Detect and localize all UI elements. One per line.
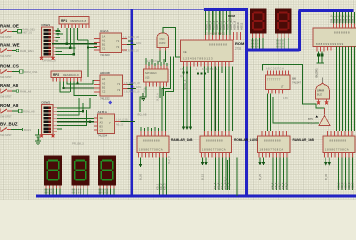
svg-text:Y1: Y1 <box>117 82 121 86</box>
svg-text:1.A_RAM5_L6: 1.A_RAM5_L6 <box>123 50 139 53</box>
svg-text:ROM: ROM <box>235 41 245 46</box>
svg-text:8 8 8 8 8: 8 8 8 8 8 <box>72 192 82 195</box>
svg-text:KB_6: KB_6 <box>274 182 278 189</box>
ground under RP1 pin1 <box>56 28 61 35</box>
svg-text:RAM_A8: RAM_A8 <box>20 89 32 93</box>
svg-text:NET_01: NET_01 <box>23 30 33 34</box>
bus wire: horizontal under top displays <box>246 49 300 52</box>
svg-text:B_25: B_25 <box>258 173 262 180</box>
labels above U4 pins <box>147 60 161 63</box>
svg-text:KC_5: KC_5 <box>337 182 341 189</box>
svg-text:RAMLAR_1kB: RAMLAR_1kB <box>171 138 193 142</box>
svg-text:8 8 8 8 8 8 8: 8 8 8 8 8 8 8 <box>334 31 350 35</box>
svg-text:RAMLAR_1kB: RAMLAR_1kB <box>293 138 315 142</box>
svg-text:5e_aa: 5e_aa <box>308 122 315 125</box>
wires DS4/DS5 pins to bus <box>253 38 289 49</box>
wire U1 output to bus <box>127 41 136 45</box>
wires U7 bottom to RAM3 <box>337 47 355 132</box>
switch SW5 ROM_A8 <box>0 103 19 119</box>
svg-text:8 8 8 8 8 8 8 8: 8 8 8 8 8 8 8 8 <box>264 139 281 143</box>
net label RAM_WE tap <box>16 49 34 53</box>
RAM chip U10 <box>323 131 355 157</box>
svg-text:1.B_RAM5_L6: 1.B_RAM5_L6 <box>124 91 140 94</box>
wires DS1 pins to bus <box>46 189 60 195</box>
net labels on U7 top wires <box>330 15 355 23</box>
svg-text:2732: 2732 <box>235 47 242 51</box>
svg-text:RP2: RP2 <box>53 73 59 77</box>
svg-text:OSC: OSC <box>160 38 165 41</box>
svg-text:KB_7: KB_7 <box>278 182 282 189</box>
svg-text:1 8 9 8 0 7 7 0 8 C A: 1 8 9 8 0 7 7 0 8 C A <box>139 148 163 152</box>
wire SW2 to label <box>12 50 16 52</box>
svg-text:C2: C2 <box>102 90 106 94</box>
svg-text:C1: C1 <box>102 47 106 51</box>
svg-text:B_15: B_15 <box>201 173 205 180</box>
svg-text:BT5: BT5 <box>308 117 313 121</box>
svg-text:74LS47: 74LS47 <box>292 81 302 85</box>
net label ROM_CS tap <box>20 70 38 74</box>
svg-text:1 8 9 8 0 7 7 0 8 C A: 1 8 9 8 0 7 7 0 8 C A <box>260 148 284 152</box>
svg-text:ADC08: ADC08 <box>100 71 110 75</box>
svg-text:4.8V: 4.8V <box>283 97 288 100</box>
arrows below RAM U9 left pins <box>258 162 265 166</box>
svg-text:KD_1: KD_1 <box>156 183 160 190</box>
lone wire + label left of U9 <box>225 160 228 190</box>
wire SW5 to label <box>12 110 18 112</box>
svg-text:1.1A_(139): 1.1A_(139) <box>116 119 128 122</box>
svg-text:Y: Y <box>109 121 111 125</box>
wires below RAM U11 <box>139 157 167 194</box>
svg-text:B_35: B_35 <box>324 173 328 180</box>
gate U2 74LS32 <box>94 71 128 101</box>
antenna/transducer LS1 <box>308 108 330 126</box>
net label ROM_A8 tap <box>19 109 35 113</box>
svg-text:2A: 2A <box>102 77 105 81</box>
labels below U4 <box>144 88 148 94</box>
svg-text:RAM_OE: RAM_OE <box>0 24 19 29</box>
svg-text:CE: CE <box>183 50 187 54</box>
svg-text:SW-SPST: SW-SPST <box>0 115 12 119</box>
resistor pack RP2 <box>51 71 82 82</box>
svg-text:A3:B:A: A3:B:A <box>98 110 107 114</box>
svg-text:A3: A3 <box>100 121 104 125</box>
wire SW4 to label <box>12 90 16 92</box>
svg-text:74LS00: 74LS00 <box>100 53 110 57</box>
svg-text:8 8 8 8 8: 8 8 8 8 8 <box>98 192 108 195</box>
svg-text:DSW2: DSW2 <box>42 101 51 105</box>
svg-text:8 8 8 8: 8 8 8 8 <box>276 46 284 49</box>
svg-text:Y2: Y2 <box>117 88 121 92</box>
svg-text:8 8 8 8 8 8 8 8: 8 8 8 8 8 8 8 8 <box>330 139 347 143</box>
svg-text:KA_6: KA_6 <box>217 182 221 189</box>
net labels below RAM U8 <box>201 173 232 189</box>
svg-text:RAM_WE1: RAM_WE1 <box>20 49 34 53</box>
DIP switch DSW1 <box>40 23 57 63</box>
svg-text:ROM_A8: ROM_A8 <box>0 103 19 108</box>
pin-number labels above ROM top stubs <box>205 34 226 36</box>
svg-text:DSW1: DSW1 <box>42 23 51 27</box>
svg-text:Y2: Y2 <box>116 45 120 49</box>
junction dots RP2 mesh <box>62 82 78 89</box>
decoder U6 74LS47 <box>266 71 291 94</box>
wires crystal legs down <box>160 51 166 63</box>
buzzer BZ1 <box>316 83 330 105</box>
arrows below RAM U10 left pins <box>324 162 331 166</box>
svg-text:RP1: RP1 <box>61 19 67 23</box>
power flags below U7 <box>317 52 325 64</box>
svg-text:0.B: 0.B <box>180 68 184 71</box>
svg-text:RESPACK-8: RESPACK-8 <box>71 19 87 23</box>
svg-text:SW-SPST: SW-SPST <box>0 35 12 39</box>
svg-text:AD11: AD11 <box>239 22 243 30</box>
net label RAM_A8 tap <box>16 89 31 93</box>
resistor pack RP1 <box>59 17 89 29</box>
wire buzzer top <box>322 78 324 83</box>
7seg display DS2 (green) <box>71 156 89 189</box>
svg-text:KB_5: KB_5 <box>271 182 275 189</box>
svg-text:B_RAM: B_RAM <box>133 86 141 89</box>
svg-text:8 0 1 2 8 4 0 1: 8 0 1 2 8 4 0 1 <box>202 68 218 71</box>
labels below DS4 pins <box>251 40 259 49</box>
7seg display DS4 (red) <box>250 9 266 39</box>
DIP switch DSW2 <box>40 101 57 138</box>
wires below RAM U10 <box>326 157 353 190</box>
svg-text:1A: 1A <box>102 35 105 39</box>
svg-text:U15: U15 <box>145 77 150 80</box>
svg-text:KD_3: KD_3 <box>163 183 167 190</box>
svg-text:1.A_RAM5_U6: 1.A_RAM5_U6 <box>123 36 140 39</box>
wires above RAM U11 <box>141 127 159 131</box>
svg-text:8 8 8 8 8: 8 8 8 8 8 <box>44 192 54 195</box>
svg-text:KC_7: KC_7 <box>344 182 348 189</box>
svg-text:DB_7: DB_7 <box>351 15 355 23</box>
labels DS2 pins <box>72 189 82 195</box>
svg-text:SW-SPST: SW-SPST <box>0 95 12 99</box>
svg-text:KB_0: KB_0 <box>225 176 228 183</box>
switch SW2 RAM_WE <box>0 43 20 59</box>
svg-text:A1: A1 <box>102 39 106 43</box>
svg-text:8 8 8 9 9 9 9 9 9 9 9 9: 8 8 8 9 9 9 9 9 9 9 9 9 <box>316 42 344 46</box>
svg-text:ROM: ROM <box>228 14 236 18</box>
wires below RAM U8 <box>203 157 230 190</box>
7seg display DS3 (green) <box>98 156 116 189</box>
wire U2 output to bus <box>128 85 137 89</box>
labels below ROM pins <box>180 68 218 78</box>
bus wire: long vertical at x=246.5 <box>245 9 248 198</box>
wire left of U6 down <box>273 97 319 123</box>
svg-text:BUZ1: BUZ1 <box>24 128 32 132</box>
label ROM <box>235 41 245 51</box>
arrows below RAM U8 left pins <box>201 162 208 166</box>
gate U1 74LS00 <box>94 29 127 57</box>
wire SW6 to BUZ label <box>11 129 22 131</box>
svg-text:RESPACK-8: RESPACK-8 <box>63 73 79 77</box>
svg-text:1 2 3 4 5 6 7 8 9 0 1 2 3: 1 2 3 4 5 6 7 8 9 0 1 2 3 <box>183 57 213 61</box>
crystal X1 <box>157 33 169 51</box>
svg-text:1 8 9 8 0 7 7 0 8 C A: 1 8 9 8 0 7 7 0 8 C A <box>202 148 226 152</box>
label U6 <box>292 77 302 85</box>
svg-text:DIPSWC_8: DIPSWC_8 <box>43 59 57 63</box>
bus wire: vertical right of top displays <box>298 11 301 52</box>
net labels right of U2 <box>124 82 141 94</box>
wires below U4 <box>140 87 164 113</box>
wire crystal top to ROM <box>163 28 181 58</box>
switch SW3 ROM_CS <box>0 64 19 80</box>
svg-text:1 8 9 8 0 7 7 0 8 C A: 1 8 9 8 0 7 7 0 8 C A <box>325 148 349 152</box>
svg-text:A_RAM: A_RAM <box>133 42 141 45</box>
ground near SW6 <box>35 129 42 139</box>
wires ROM bottom left with arrows <box>182 67 192 131</box>
wires U6 bottom to RAM2 <box>268 94 271 132</box>
svg-text:ROM_CS1: ROM_CS1 <box>24 70 38 74</box>
switch SW1 RAM_OE <box>0 24 19 40</box>
wire SW1 to label <box>12 31 17 33</box>
wire mesh DSW1/RP1 to U1/U2 <box>52 28 97 77</box>
svg-text:KA_7: KA_7 <box>220 182 224 189</box>
svg-text:BUZR1: BUZR1 <box>315 68 319 78</box>
svg-text:PR_B8_5: PR_B8_5 <box>72 142 84 146</box>
svg-text:8 8 8 8 8 8 8 8: 8 8 8 8 8 8 8 8 <box>143 139 160 143</box>
junction dots DSW2 mesh <box>82 110 91 123</box>
wire SW3 to label <box>12 71 19 73</box>
bus wire: thin blue segment top-left <box>0 9 204 11</box>
svg-text:8 8 8 8 8 8 8 8: 8 8 8 8 8 8 8 8 <box>209 43 227 47</box>
bus wire: thick blue to top right corner <box>298 9 353 12</box>
svg-text:SW-SPST: SW-SPST <box>0 75 12 79</box>
labels below U6 <box>283 97 288 100</box>
junction dots top-left mesh <box>66 43 89 56</box>
svg-text:Y1: Y1 <box>116 39 120 43</box>
labels below DS5 pins <box>276 40 284 49</box>
svg-text:1 2 0 4 8 0 2: 1 2 0 4 8 0 2 <box>147 60 161 63</box>
decoder U4 mid <box>144 65 169 87</box>
wire U3 output to bus <box>121 121 136 123</box>
svg-text:IRQ_AB: IRQ_AB <box>137 113 147 117</box>
svg-text:KA_5: KA_5 <box>213 182 217 189</box>
svg-text:KB_9: KB_9 <box>285 182 289 189</box>
svg-text:B1: B1 <box>102 43 106 47</box>
vertical label mid <box>157 93 172 164</box>
svg-text:KD_2: KD_2 <box>159 183 163 190</box>
svg-text:3A: 3A <box>100 116 103 120</box>
svg-text:S2T1D2L3: S2T1D2L3 <box>145 72 157 75</box>
svg-text:B_05: B_05 <box>139 173 143 180</box>
svg-text:ROM_A8: ROM_A8 <box>23 110 35 114</box>
svg-text:KB_8: KB_8 <box>281 182 285 189</box>
svg-text:RAM_A8: RAM_A8 <box>0 83 19 88</box>
wires DS3 pins to bus <box>100 189 114 195</box>
net label BUZ <box>23 128 32 132</box>
ground below U4 <box>141 93 147 101</box>
svg-text:8 8 8 8: 8 8 8 8 <box>251 46 259 49</box>
RAM chip U8 <box>200 131 232 157</box>
wires DS2 pins to bus <box>73 189 87 195</box>
wire from U6 area top <box>263 65 325 109</box>
svg-text:74LS32: 74LS32 <box>100 97 110 101</box>
svg-text:8 8 8 8 8 8 8 8: 8 8 8 8 8 8 8 8 <box>206 139 223 143</box>
svg-text:4MHZ: 4MHZ <box>159 42 166 45</box>
net labels right of U1 <box>123 36 141 53</box>
net labels below RAM U10 <box>324 173 355 189</box>
bus wire: bottom horizontal <box>36 195 356 198</box>
svg-text:KC_9: KC_9 <box>351 182 355 189</box>
svg-text:1 2 3 4 5 6 7 8 9 0 1: 1 2 3 4 5 6 7 8 9 0 1 <box>205 34 226 36</box>
wires U7 top pins to bus <box>334 12 355 24</box>
net labels right of U3 <box>116 119 128 127</box>
svg-text:BV_BUZ: BV_BUZ <box>0 122 18 127</box>
7seg display DS5 (red) <box>275 9 291 39</box>
long wires to RAM U11 top <box>162 57 174 132</box>
net labels on ROM top wires <box>204 20 243 30</box>
RAM chip U11 <box>137 131 169 157</box>
svg-text:7 7 7 7 7 7 7: 7 7 7 7 7 7 7 <box>267 79 281 82</box>
wires below RAM U9 <box>260 157 287 190</box>
svg-text:SW-SPST: SW-SPST <box>0 54 12 58</box>
svg-text:RAM_WE: RAM_WE <box>0 43 20 48</box>
svg-text:KC_6: KC_6 <box>340 182 344 189</box>
switch SW6 BV_BUZ <box>0 122 18 138</box>
svg-text:BUZ: BUZ <box>317 94 322 97</box>
svg-text:SPKR: SPKR <box>317 89 324 93</box>
junction dots below ROM <box>182 71 206 74</box>
svg-text:ROMLAR_LU03: ROMLAR_LU03 <box>234 138 258 142</box>
svg-text:ROM_CS: ROM_CS <box>0 64 19 69</box>
switch SW4 RAM_A8 <box>0 83 19 99</box>
svg-text:KC_8: KC_8 <box>347 182 351 189</box>
svg-text:1.B_RAM5_U6: 1.B_RAM5_U6 <box>124 82 141 85</box>
bus wire: thick blue top horizontal <box>204 8 248 11</box>
svg-text:2x1: 2x1 <box>228 19 233 22</box>
extra short stubs right of ROM top pins <box>234 32 241 40</box>
wires above U4 <box>146 58 167 66</box>
svg-text:B3: B3 <box>100 125 104 129</box>
svg-text:Q.B: Q.B <box>180 75 185 78</box>
wires ROM top pins to bus <box>206 11 231 35</box>
wire mesh RP2 to U2 <box>60 81 97 96</box>
marker diamond above U3 <box>108 101 112 105</box>
svg-text:BUZ_A: BUZ_A <box>157 93 160 101</box>
wires ROM bottom to RAM1 <box>205 67 233 132</box>
labels DS3 pins <box>98 189 108 195</box>
svg-text:C3: C3 <box>100 129 104 133</box>
svg-text:AB_13: AB_13 <box>116 124 124 127</box>
labels DS1 pins <box>44 189 54 195</box>
svg-text:SW-SPST: SW-SPST <box>0 133 12 137</box>
svg-text:B2: B2 <box>102 86 106 90</box>
svg-text:BUZ_B: BUZ_B <box>168 156 171 164</box>
ground under DSW2 <box>35 137 41 145</box>
bus wire: long vertical at x=131.8 <box>130 9 133 197</box>
svg-text:U12:A: U12:A <box>100 29 108 33</box>
net label RAM_OE tap <box>18 28 36 35</box>
svg-text:A2: A2 <box>102 82 106 86</box>
label ROM group top <box>228 14 236 22</box>
svg-text:74LS04: 74LS04 <box>98 134 108 138</box>
net labels below RAM U11 <box>139 173 167 190</box>
IC U7 top right <box>313 24 356 52</box>
gate U3 74LS04 <box>94 110 121 138</box>
RAM chip U9 <box>258 131 291 157</box>
labels above U6 pins <box>266 68 284 71</box>
lone wire between U8 and U9 <box>236 157 238 196</box>
net labels below RAM U9 <box>258 173 289 189</box>
7seg display DS1 (green) <box>44 156 62 189</box>
ROM chip U5 <box>181 35 234 67</box>
svg-text:U6: U6 <box>292 77 296 81</box>
wire mesh DSW2 to U3 <box>57 98 94 129</box>
svg-text:A B C D E F G H: A B C D E F G H <box>266 68 284 71</box>
